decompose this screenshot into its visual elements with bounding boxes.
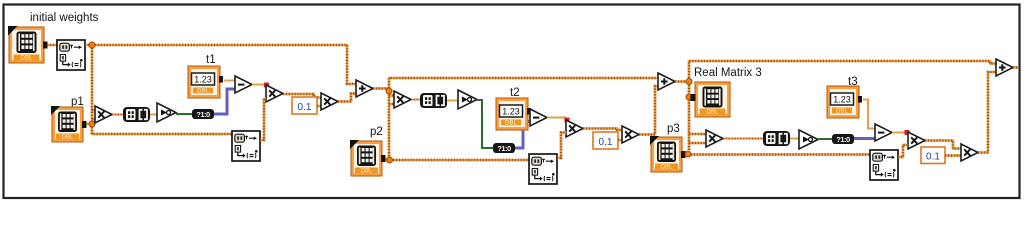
wire 0.1 to x2c xyxy=(618,139,622,142)
subtract 2 xyxy=(530,109,547,126)
boolean-to-01 Q1 xyxy=(192,109,214,119)
wire w1 column stage 2 xyxy=(388,94,391,157)
coercion dot stage3 xyxy=(905,130,910,135)
wire J2b to Real Matrix 3 indicator xyxy=(691,96,694,99)
svg-text:t2: t2 xyxy=(510,87,520,99)
wire stub x3a top input xyxy=(689,133,706,136)
wire stub x2a bottom input xyxy=(389,103,394,106)
numeric constant t2 1.23 xyxy=(496,98,531,130)
converter T1 transpose xyxy=(232,131,260,161)
svg-text:p2: p2 xyxy=(370,126,383,138)
wire x1L to x1M xyxy=(283,94,321,98)
numeric constant t3 1.23 xyxy=(827,86,862,118)
wire boolean comparator1 to Q1 xyxy=(176,113,192,115)
junction J1 xyxy=(386,88,392,94)
wire stub x2a top input xyxy=(389,94,394,97)
junction J2a xyxy=(686,79,692,85)
wire p1 transpose run to T1 xyxy=(92,127,232,134)
wire x3a to I3a xyxy=(723,138,763,140)
wire boolean comparator2 to Q2 xyxy=(477,100,493,148)
wire x2b to x2c xyxy=(583,129,622,131)
wire adder 3 output stub xyxy=(1013,66,1018,69)
wire integer Q2 to subtract 2 xyxy=(515,122,530,149)
matrix-to-array I3a xyxy=(763,131,790,146)
wire x2a to I2a xyxy=(411,99,420,101)
adder 2 xyxy=(658,73,675,90)
wire x1M to adder 1 xyxy=(338,94,356,102)
wire w0 branch down column stage 1 xyxy=(91,48,94,121)
wire p1 to junction J1p xyxy=(86,123,89,126)
wire w2 column stage 3 xyxy=(688,85,691,150)
wire integer Q1 to subtract 1 xyxy=(214,89,235,114)
wire C0 to junction J0 xyxy=(85,44,89,47)
wire integer Q3 to subtract 3 xyxy=(854,137,875,140)
wire t1 to subtract 1 xyxy=(224,80,235,82)
wire t3 to subtract 3 xyxy=(863,100,875,129)
multiply x3a xyxy=(706,130,723,147)
coercion dot stage1 xyxy=(264,83,269,88)
svg-text:DBL: DBL xyxy=(707,110,719,116)
svg-text:Real Matrix 3: Real Matrix 3 xyxy=(694,67,762,79)
matrix constant p2 xyxy=(350,140,386,176)
wire w2 up run to adder 3 xyxy=(689,61,996,78)
wire stub x3a bottom input xyxy=(689,142,706,145)
wire I3a to comparator 3 xyxy=(790,138,799,140)
wire adder1 to junction J1 xyxy=(373,87,388,90)
wire stub multiply x1a bottom input xyxy=(92,118,95,121)
wire boolean comparator3 to Q3 xyxy=(818,138,832,140)
numeric constant t1 1.23 xyxy=(188,66,223,98)
junction J1p xyxy=(89,121,95,127)
svg-text:0.1: 0.1 xyxy=(298,102,312,113)
wire x1a to I1a xyxy=(112,114,123,116)
wire T1 up to x1L bottom input xyxy=(260,99,266,140)
converter T3 transpose xyxy=(870,150,898,180)
multiply x2c xyxy=(622,126,639,143)
subtract 3 xyxy=(875,124,892,141)
svg-text:0.1: 0.1 xyxy=(599,137,613,148)
subtract 1 xyxy=(235,76,252,93)
multiply x1a xyxy=(95,106,112,123)
numeric constant 0.1 stage2 xyxy=(593,132,618,149)
wire p3 to junction J3p xyxy=(685,153,687,156)
wire stub multiply x1a top input xyxy=(92,109,95,112)
svg-text:DBL: DBL xyxy=(21,56,33,62)
wire p2 to junction J2p xyxy=(385,158,388,161)
wire 0.1 to x1M xyxy=(317,105,321,108)
wire x3c to adder 3 xyxy=(978,72,996,153)
junction J2b xyxy=(686,94,692,100)
wire error 2 to multiply x2b xyxy=(547,117,566,119)
multiply x3b xyxy=(908,132,925,149)
junction J0 xyxy=(89,42,95,48)
adder 3 xyxy=(996,59,1013,76)
matrix constant p3 xyxy=(650,136,686,172)
svg-text:p1: p1 xyxy=(71,96,84,108)
wire adder2 to junction J2a xyxy=(675,80,687,83)
multiply x2a xyxy=(394,91,411,108)
multiply x1M xyxy=(321,93,338,110)
converter T2 transpose xyxy=(529,154,557,184)
wire p2 transpose run to T2 xyxy=(393,159,529,162)
comparator greater-than-zero 2 xyxy=(458,90,477,109)
converter C0 array-to-matrix xyxy=(57,40,85,70)
junction J3p xyxy=(685,151,691,157)
wire M0 to converter C0 xyxy=(47,44,57,47)
wire T3 up to x3b bottom input xyxy=(898,145,908,157)
boolean-to-01 Q3 xyxy=(832,134,854,144)
svg-text:p3: p3 xyxy=(667,123,680,135)
wire error 3 to multiply x3b xyxy=(892,132,906,134)
wire I2a to comparator 2 xyxy=(447,100,458,102)
wire x2c to adder 2 xyxy=(639,86,658,135)
wire I1a to comparator 1 xyxy=(150,114,157,116)
wire error 1 to multiply x1L xyxy=(252,84,266,86)
adder 1 xyxy=(356,80,373,97)
matrix indicator Real Matrix 3 xyxy=(691,82,731,117)
matrix constant p1 xyxy=(51,106,87,142)
svg-text:t1: t1 xyxy=(206,54,216,66)
junction J2p xyxy=(387,157,393,163)
wire w1 up run to adder 2 xyxy=(389,78,657,88)
wire 0.1 to x3c xyxy=(945,154,961,157)
numeric constant 0.1 stage1 xyxy=(292,97,317,114)
wire p3 transpose run to T3 xyxy=(691,153,870,156)
comparator greater-than-zero 1 xyxy=(157,103,176,122)
svg-text:initial weights: initial weights xyxy=(30,12,99,24)
multiply x2b xyxy=(566,120,583,137)
wire x3b to x3c xyxy=(925,141,961,149)
matrix-to-array I2a xyxy=(420,93,447,108)
boolean-to-01 Q2 xyxy=(493,143,515,153)
multiply x3c xyxy=(961,144,978,161)
multiply x1L xyxy=(266,85,283,102)
matrix-to-array I1a xyxy=(123,107,150,122)
svg-text:0.1: 0.1 xyxy=(926,152,940,163)
comparator greater-than-zero 3 xyxy=(799,130,818,149)
coercion dot stage2 xyxy=(565,118,570,123)
matrix constant M0 initial weights xyxy=(8,26,48,63)
wire T2 up to x2b bottom input xyxy=(557,133,566,159)
numeric constant 0.1 stage3 xyxy=(921,147,945,164)
wire w0 long top run to adder 1 xyxy=(95,45,356,84)
